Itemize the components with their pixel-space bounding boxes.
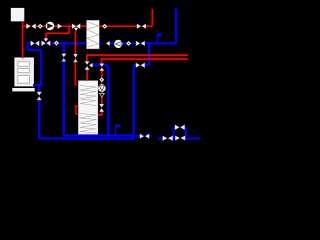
valve V1 on red row: [26, 24, 35, 29]
wire red corner line2 to pump column: [101, 58, 103, 64]
wire 3-way TW3 outlet S-bend: [92, 65, 108, 135]
storage tank TK1: [78, 81, 98, 135]
check valve V2: [58, 24, 62, 29]
wire bypass left vertical: [173, 127, 175, 138]
wire blue return header right and riser: [110, 7, 177, 43]
wire column D3 to P3: [101, 82, 103, 85]
diamond gauge D4: [54, 41, 59, 46]
valve V3 on TW1 drop: [73, 54, 77, 62]
valve V11 on return header: [136, 41, 145, 46]
wire blue drop to line B right: [133, 65, 136, 139]
wire red corner line1 to TW3: [86, 54, 88, 61]
expansion vessel EV1: [11, 8, 24, 22]
valve V12 on bypass link: [136, 63, 145, 68]
valve V5 on pump column: [100, 64, 105, 71]
wire bypass link horizontal: [134, 64, 149, 66]
plate heat exchanger HX1: [87, 20, 100, 49]
wire blue drop right of boiler: [40, 50, 42, 86]
valve V6 above tank port: [99, 104, 104, 112]
wire red drop below V3 to tank coil: [74, 62, 76, 86]
wire blue drop above valve V8: [38, 85, 40, 92]
diamond gauge D1: [38, 24, 43, 29]
tank lower coil: [80, 114, 97, 134]
wire red stub HX to D2: [99, 25, 103, 27]
valve V13 on mains line: [163, 136, 173, 141]
wire red supply line 2: [102, 58, 188, 60]
valve V10 on line A: [140, 134, 149, 139]
valve V15 between bypass verticals: [175, 136, 185, 141]
wire blue elbow left of boiler: [27, 43, 41, 50]
3-way valve TW1: [72, 24, 80, 32]
valve V9 on tank feed drop: [62, 54, 67, 62]
wire red row right and riser: [106, 9, 152, 26]
valve V7 on blue header: [31, 41, 40, 46]
wire red stub above TW2: [45, 33, 47, 38]
wire tank coil series C-link: [76, 106, 78, 114]
3-way mixing valve TW2: [42, 38, 51, 46]
tank upper coil: [80, 86, 97, 106]
diamond gauge D2: [102, 24, 107, 29]
flow arrow into HX: [106, 41, 110, 46]
sensor T3 on line A: [116, 124, 120, 135]
valve V4 before riser: [137, 24, 146, 29]
wire column V5 to D3: [101, 71, 103, 78]
valve V14 on bypass upper line: [175, 125, 185, 130]
pump P1: [46, 22, 55, 31]
diamond gauge D5: [126, 41, 131, 46]
wire column P3 to check: [101, 92, 103, 94]
boiler B1: [15, 58, 33, 86]
wire bypass upper line: [174, 126, 186, 128]
wire boiler return stub: [33, 84, 42, 86]
wire HX cold stub: [99, 42, 101, 44]
wire blue drop to line B and line B: [39, 100, 135, 139]
wire drop expansion vessel to boiler: [22, 21, 24, 58]
wire cold mains line: [158, 137, 200, 139]
check valve below P3: [99, 93, 104, 97]
wire red drop TW1 to valve V3: [74, 31, 76, 54]
boiler B1 pedestal: [12, 88, 34, 91]
valve V8 on boiler drop: [37, 92, 42, 100]
wire column V6 into tank side: [98, 112, 103, 115]
pump P3 tank charging: [98, 84, 106, 92]
wire red supply line 1: [87, 54, 188, 56]
3-way valve TW3 above tank: [85, 61, 93, 70]
wire blue return header left: [27, 42, 86, 44]
diamond gauge D3: [99, 77, 104, 82]
wire blue drop to line A and line A: [64, 61, 152, 136]
wire bypass right vertical: [185, 127, 187, 138]
wire red jog tee to mixing valve TW2: [46, 26, 69, 38]
wire blue drop from header at T2: [148, 43, 150, 65]
pump P2 on return header: [114, 40, 122, 48]
wire red primary flow row: [23, 25, 87, 27]
wire column check to V6: [101, 97, 103, 104]
sensor T2 on header: [157, 33, 161, 43]
wire red drop TW3 to tank top: [86, 70, 88, 81]
wire blue drop from header T: [63, 43, 65, 54]
